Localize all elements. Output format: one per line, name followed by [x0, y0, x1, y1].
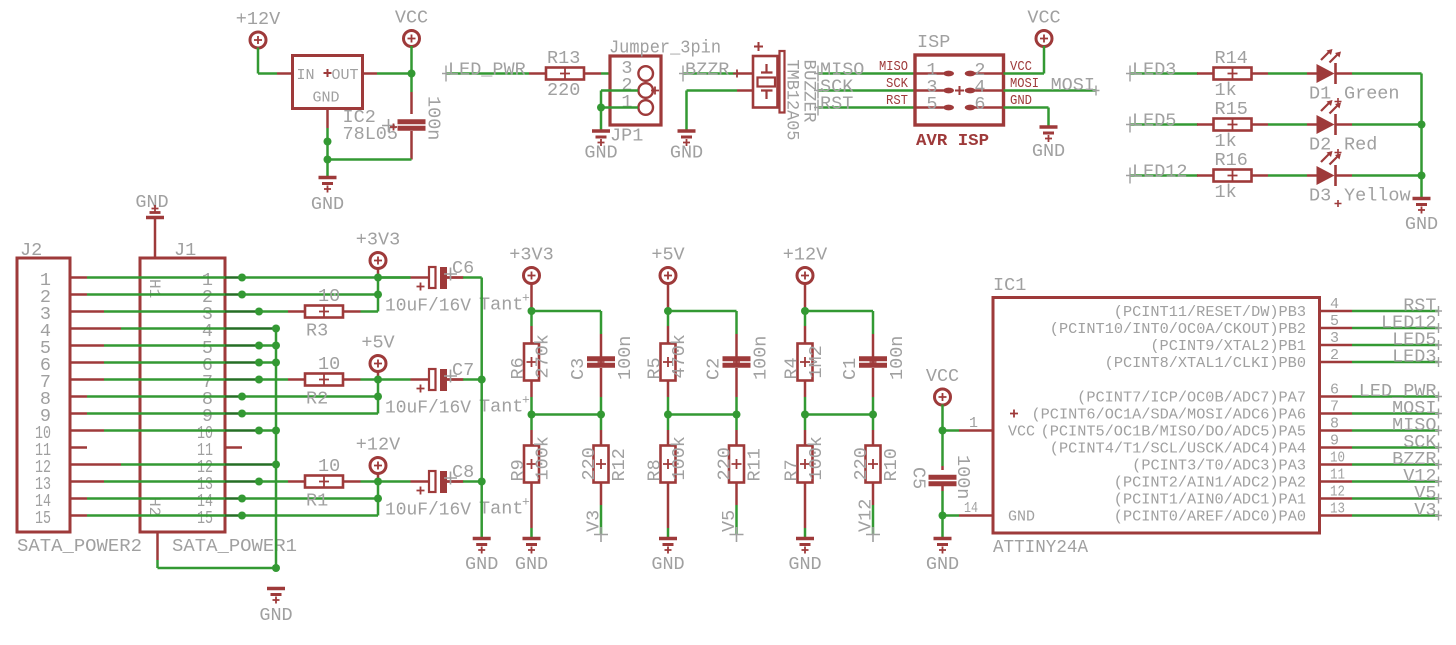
LED D3 Yellow — [1307, 151, 1352, 186]
resistor R15 1k — [1214, 119, 1252, 131]
wire J2-3 to J1-3 — [104, 310, 225, 313]
junction div5v top — [664, 307, 672, 315]
net label SCK — [814, 83, 915, 99]
wire R2 left stub — [288, 378, 305, 381]
junction div12v mid left — [801, 411, 809, 419]
wire to R9 — [530, 415, 533, 431]
capacitor C6 10uF/16V Tant — [411, 267, 464, 291]
wire 12V stem — [377, 473, 380, 482]
wire C1 bottom — [872, 368, 875, 397]
wire cap gnd vertical — [480, 278, 483, 538]
junction div5v mid left — [664, 411, 672, 419]
origin cross C1 — [870, 359, 877, 366]
wire J2 pin 13 stub — [70, 480, 104, 483]
wire R9 to gnd — [530, 483, 533, 529]
wire over J1 pin 6 — [225, 361, 259, 364]
svg-text:(PCINT11/RESET/DW)PB3: (PCINT11/RESET/DW)PB3 — [1114, 304, 1306, 321]
junction 5V b — [374, 393, 382, 401]
svg-text:15: 15 — [35, 508, 51, 529]
wire pin 8 stub — [1320, 429, 1353, 432]
wire 5V stem — [377, 371, 380, 380]
svg-text:LED5: LED5 — [1132, 111, 1176, 132]
svg-text:GND: GND — [670, 143, 703, 164]
origin cross D1 — [1335, 98, 1342, 105]
svg-text:+12V: +12V — [783, 245, 827, 266]
svg-text:GND: GND — [1405, 214, 1438, 235]
junction bottom gnd — [272, 564, 280, 572]
svg-text:11: 11 — [1330, 467, 1345, 484]
svg-text:10: 10 — [1330, 450, 1345, 467]
pin pad ISP-3 — [915, 88, 954, 94]
wire over J1 pin 8 — [225, 395, 242, 398]
wire 3V3 vertical — [377, 278, 380, 312]
wire to JP1 pin3 — [601, 72, 638, 75]
wire +12V stem — [804, 283, 807, 311]
wire +3V3 stem — [530, 283, 533, 311]
svg-text:270k: 270k — [533, 334, 554, 378]
junction gnd p10 — [272, 427, 280, 435]
junction J1-14 — [238, 495, 246, 503]
svg-text:VCC: VCC — [926, 366, 959, 387]
wire gnd row4 — [275, 327, 278, 330]
net label V5 — [730, 527, 744, 542]
wire pin 2 stub — [1320, 361, 1353, 364]
svg-text:+3V3: +3V3 — [509, 245, 553, 266]
wire 3V3 row1 — [242, 276, 411, 279]
wire J2-5 to J1-5 — [104, 344, 225, 347]
wire R1 right stub — [343, 480, 361, 483]
power VCC at IC1 — [926, 366, 959, 405]
net label V5 — [1352, 494, 1442, 504]
svg-text:R13: R13 — [547, 48, 580, 69]
wire J2-2 to J1-2 — [87, 293, 225, 296]
svg-text:100k: 100k — [533, 436, 554, 480]
net label LED3 — [1352, 357, 1442, 367]
wire J2-7 to J1-7 — [104, 378, 225, 381]
wire OUT to VCC node — [377, 72, 412, 75]
wire C8 right lead — [447, 480, 463, 483]
net label MOSI — [1055, 86, 1100, 96]
svg-text:10uF/16V: 10uF/16V — [385, 398, 471, 419]
wire down to C4 — [410, 74, 413, 93]
junction J1-15 — [238, 512, 246, 520]
wire to C8 — [378, 480, 411, 483]
svg-text:MOSI: MOSI — [1051, 75, 1095, 96]
pin cross buzzer 1 — [733, 70, 741, 78]
net label V3 — [594, 527, 608, 542]
resistor R13 — [546, 68, 584, 80]
wire R5 bottom — [667, 381, 670, 398]
wire J2 pin 2 stub — [70, 293, 87, 296]
wire J2 pin 7 stub — [70, 378, 104, 381]
wire +5V stem — [667, 283, 670, 311]
junction gnd p6 — [272, 359, 280, 367]
svg-text:100k: 100k — [806, 436, 827, 480]
wire J2-1 to J1-1 — [87, 276, 225, 279]
wire pin 13 stub — [1320, 514, 1353, 517]
svg-text:V3: V3 — [584, 510, 605, 532]
resistor R14 1k — [1214, 68, 1252, 80]
resistor R7 100k — [798, 446, 813, 483]
svg-text:R2: R2 — [306, 389, 328, 410]
svg-text:100n: 100n — [423, 96, 444, 140]
wire over J1 pin 14 — [225, 497, 242, 500]
wire div12v top — [805, 310, 873, 313]
wire R10 to V12 — [872, 483, 875, 506]
svg-text:Yellow: Yellow — [1344, 186, 1411, 207]
wire pin 5 stub — [1320, 327, 1353, 330]
junction J1-7 — [255, 376, 263, 384]
wire J2 pin 5 stub — [70, 344, 104, 347]
wire D3 to gnd rail — [1352, 174, 1422, 177]
svg-text:IC1: IC1 — [993, 275, 1026, 296]
junction 3V3 b — [374, 291, 382, 299]
wire J1 bottom to gnd — [158, 567, 277, 570]
junction gnd p5 — [272, 342, 280, 350]
svg-text:V12: V12 — [856, 499, 877, 532]
svg-text:7: 7 — [1330, 399, 1339, 416]
net label LED_PWR — [1352, 392, 1442, 402]
wire ISP pin4 MOSI — [1004, 89, 1056, 92]
svg-text:Red: Red — [1344, 135, 1377, 156]
svg-text:6: 6 — [974, 94, 985, 115]
svg-text:1k: 1k — [1215, 80, 1237, 101]
junction div3v3 mid right — [597, 411, 605, 419]
junction cap gnd 1 — [478, 376, 486, 384]
wire to R12 — [600, 415, 603, 431]
svg-text:5: 5 — [1330, 313, 1339, 330]
net label RST — [1352, 306, 1442, 316]
svg-text:GND: GND — [515, 554, 548, 575]
wire C6 right lead — [447, 276, 463, 279]
wire div12v mid — [805, 413, 873, 416]
svg-text:(PCINT9/XTAL2)PB1: (PCINT9/XTAL2)PB1 — [1150, 338, 1306, 355]
junction div3v3 top — [528, 307, 536, 315]
ground under buzzer — [678, 131, 696, 146]
power +5V at C7 — [361, 333, 394, 372]
svg-text:10: 10 — [318, 456, 340, 477]
capacitor C8 10uF/16V Tant — [411, 471, 464, 495]
svg-text:GND: GND — [1032, 141, 1065, 162]
wire J2 pin 12 stub — [70, 463, 121, 466]
svg-text:10: 10 — [318, 286, 340, 307]
wire R3 right stub — [343, 310, 361, 313]
resistor R8 100k — [661, 446, 676, 483]
junction J1-3 — [255, 308, 263, 316]
svg-text:+: + — [522, 393, 530, 408]
net label V12 — [1352, 477, 1442, 487]
power +3V3 divider — [509, 245, 553, 284]
wire gnd vertical at J1 — [275, 329, 278, 569]
wire 12V row14 — [242, 497, 378, 500]
wire div5v top — [668, 310, 737, 313]
capacitor C2 100n — [723, 356, 751, 368]
resistor R12 220 — [594, 446, 609, 483]
svg-text:1k: 1k — [1215, 182, 1237, 203]
svg-text:4: 4 — [1330, 296, 1339, 313]
svg-text:D3: D3 — [1309, 186, 1331, 207]
wire C5 bottom — [941, 486, 944, 491]
wire R1 left stub — [288, 480, 305, 483]
svg-text:GND: GND — [313, 90, 340, 107]
svg-text:12: 12 — [1330, 484, 1345, 501]
svg-text:1M2: 1M2 — [806, 345, 827, 378]
wire 5V row8 — [242, 395, 378, 398]
svg-text:VCC: VCC — [395, 8, 428, 29]
resistor R2 10 — [305, 374, 343, 386]
wire JP1 gnd vertical — [600, 91, 603, 130]
wire pin 12 stub — [1320, 497, 1353, 500]
junction IC1 gnd — [939, 512, 947, 520]
svg-text:+5V: +5V — [361, 333, 394, 354]
svg-text:1k: 1k — [1215, 131, 1237, 152]
svg-text:+5V: +5V — [651, 245, 684, 266]
wire C4 to GND rail — [410, 131, 413, 160]
ground below J1 — [267, 589, 285, 604]
wire div3v3 top — [532, 310, 602, 313]
wire R16 right stub — [1252, 174, 1269, 177]
LED D1 Green — [1307, 49, 1352, 84]
LED D2 Red — [1307, 100, 1352, 135]
wire to gnd — [941, 516, 944, 538]
net label SCK — [1352, 443, 1442, 453]
svg-text:R8: R8 — [645, 459, 666, 481]
svg-text:GND: GND — [926, 554, 959, 575]
wire div5v mid — [668, 413, 737, 416]
net label MOSI — [1352, 409, 1442, 419]
svg-text:R15: R15 — [1215, 99, 1248, 120]
svg-text:(PCINT5/OC1B/MISO/DO/ADC5)PA5: (PCINT5/OC1B/MISO/DO/ADC5)PA5 — [1041, 424, 1306, 441]
wire J2-4 to J1-4 — [121, 327, 225, 330]
junction J1-9 — [238, 410, 246, 418]
net label LED5 — [1352, 340, 1442, 350]
junction 5V a — [374, 376, 382, 384]
wire VCC down — [410, 46, 413, 74]
wire J2 pin 11 stub — [70, 446, 87, 449]
net label BZZR — [1352, 460, 1442, 470]
svg-text:100n: 100n — [751, 336, 772, 380]
junction gnd p12 — [272, 461, 280, 469]
svg-text:(PCINT3/T0/ADC3)PA3: (PCINT3/T0/ADC3)PA3 — [1132, 458, 1306, 475]
wire J2 pin 4 stub — [70, 327, 121, 330]
resistor R1 10 — [305, 476, 343, 488]
svg-text:GND: GND — [1008, 509, 1035, 526]
svg-text:R5: R5 — [645, 357, 666, 379]
svg-text:9: 9 — [1330, 433, 1339, 450]
svg-text:220: 220 — [547, 80, 580, 101]
svg-text:220: 220 — [579, 447, 600, 480]
svg-text:Green: Green — [1344, 84, 1400, 105]
svg-text:C3: C3 — [568, 358, 589, 380]
svg-text:RST: RST — [820, 94, 853, 115]
wire R15 right stub — [1252, 123, 1269, 126]
svg-text:(PCINT0/AREF/ADC0)PA0: (PCINT0/AREF/ADC0)PA0 — [1114, 509, 1306, 526]
origin cross C2 — [733, 359, 740, 366]
svg-text:100n: 100n — [887, 336, 908, 380]
wire to pin 14 — [943, 514, 960, 517]
wire gnd to J1 — [154, 219, 157, 258]
svg-text:3: 3 — [1330, 330, 1339, 347]
wire pin 4 stub — [1320, 310, 1353, 313]
plus mark C4 — [390, 124, 397, 131]
wire J2 pin 1 stub — [70, 276, 87, 279]
buzzer SG1 TMB12A05 — [753, 42, 785, 113]
wire R14 left stub — [1197, 72, 1214, 75]
wire over J1 pin 3 — [225, 310, 259, 313]
net label MISO — [1352, 426, 1442, 436]
junction GND 2 — [324, 156, 332, 164]
net label LED5 — [1126, 117, 1198, 133]
svg-text:(PCINT10/INT0/OC0A/CKOUT)PB2: (PCINT10/INT0/OC0A/CKOUT)PB2 — [1050, 321, 1306, 338]
wire gnd row5 — [259, 344, 276, 347]
svg-text:R16: R16 — [1215, 150, 1248, 171]
power +12V — [236, 9, 280, 48]
svg-text:10uF/16V: 10uF/16V — [385, 296, 471, 317]
connector J1 SATA_POWER1 — [140, 258, 225, 532]
svg-text:C8: C8 — [452, 462, 474, 483]
svg-text:BUZZER: BUZZER — [799, 60, 819, 123]
svg-text:OUT: OUT — [332, 67, 359, 84]
capacitor C7 10uF/16V Tant — [411, 369, 464, 393]
svg-text:SATA_POWER1: SATA_POWER1 — [172, 536, 297, 557]
svg-text:78L05: 78L05 — [343, 124, 399, 145]
wire over J1 pin 13 — [225, 480, 259, 483]
svg-text:V3: V3 — [1414, 500, 1436, 521]
svg-text:C5: C5 — [908, 467, 929, 489]
svg-text:J2: J2 — [20, 240, 42, 261]
wire J2-14 to J1-14 — [87, 497, 225, 500]
origin cross C8 — [444, 472, 457, 485]
wire vcc to C5 — [941, 431, 944, 467]
wire to C7 — [378, 378, 411, 381]
svg-text:C2: C2 — [704, 358, 725, 380]
pin pad ISP-4 — [965, 88, 1004, 94]
wire R2 right stub — [343, 378, 361, 381]
wire J2 pin 14 stub — [70, 497, 87, 500]
wire R3 left stub — [288, 310, 305, 313]
svg-text:H2: H2 — [145, 497, 163, 516]
svg-text:IN: IN — [297, 67, 315, 84]
svg-text:15: 15 — [197, 508, 213, 529]
svg-text:2: 2 — [1330, 347, 1339, 364]
resistor R10 220 — [866, 446, 881, 483]
svg-text:AVR ISP: AVR ISP — [916, 131, 989, 150]
svg-text:6: 6 — [1330, 382, 1339, 399]
svg-text:SCK: SCK — [886, 76, 909, 92]
junction 12V b — [374, 495, 382, 503]
svg-text:R14: R14 — [1215, 48, 1248, 69]
wire buzzer pin1 stub — [737, 72, 753, 75]
svg-text:220: 220 — [715, 447, 736, 480]
wire buzzer to gnd — [687, 89, 738, 92]
svg-text:(PCINT2/AIN1/ADC2)PA2: (PCINT2/AIN1/ADC2)PA2 — [1114, 475, 1306, 492]
junction div12v mid right — [869, 411, 877, 419]
svg-text:VCC: VCC — [1008, 424, 1035, 441]
wire over J1 pin 9 — [225, 412, 242, 415]
svg-text:R10: R10 — [881, 448, 902, 481]
svg-text:GND: GND — [651, 554, 684, 575]
wire R13 left stub — [529, 72, 546, 75]
connector ISP AVR ISP — [915, 55, 1004, 125]
origin cross C6 — [444, 268, 457, 281]
svg-text:+3V3: +3V3 — [356, 230, 400, 251]
part origin cross C4 — [382, 119, 395, 132]
wire C7 right lead — [447, 378, 463, 381]
power VCC — [395, 8, 428, 47]
wire J2-13 to J1-13 — [104, 480, 225, 483]
wire J2 pin 15 stub — [70, 514, 87, 517]
junction div3v3 mid left — [528, 411, 536, 419]
wire JP1 pin2 out — [601, 89, 638, 92]
ground div12v — [796, 539, 814, 554]
wire R16 left stub — [1197, 174, 1214, 177]
power +12V divider — [783, 245, 827, 284]
wire D1 to gnd rail — [1352, 72, 1422, 75]
ground symbol above J1 — [146, 205, 164, 218]
wire R15 left stub — [1197, 123, 1214, 126]
origin cross D2 — [1335, 149, 1342, 156]
wire div3v3 mid — [532, 413, 602, 416]
wire J2 pin 8 stub — [70, 395, 87, 398]
net label MISO — [814, 66, 915, 82]
wire R14 right stub — [1252, 72, 1269, 75]
wire J2-15 to J1-15 — [87, 514, 225, 517]
svg-text:Tant: Tant — [479, 397, 523, 418]
net label RST — [814, 100, 915, 116]
origin cross D3 — [1335, 200, 1342, 207]
svg-text:(PCINT8/XTAL1/CLKI)PB0: (PCINT8/XTAL1/CLKI)PB0 — [1105, 355, 1306, 372]
ground under IC2 — [319, 178, 337, 193]
svg-text:R6: R6 — [508, 357, 529, 379]
junction J1-10 — [255, 427, 263, 435]
wire pin 6 stub — [1320, 395, 1353, 398]
wire GND rail — [328, 158, 412, 161]
svg-text:R11: R11 — [745, 448, 766, 481]
connector J2 SATA_POWER2 — [17, 258, 70, 532]
svg-text:GND: GND — [465, 554, 498, 575]
ground at IC1 — [934, 539, 952, 554]
wire J2-9 to J1-9 — [87, 412, 225, 415]
ground LEDs — [1413, 199, 1431, 214]
wire 12V vertical — [377, 482, 380, 516]
junction div5v mid right — [733, 411, 741, 419]
wire J1 pin 11 stub — [225, 446, 242, 449]
wire +12V to IN — [257, 48, 260, 74]
junction J1-8 — [238, 393, 246, 401]
wire J2-8 to J1-8 — [87, 395, 225, 398]
net label LED_PWR — [442, 66, 529, 82]
wire LED gnd vertical — [1420, 74, 1423, 198]
svg-text:(PCINT1/AIN0/ADC1)PA1: (PCINT1/AIN0/ADC1)PA1 — [1114, 492, 1306, 509]
wire to R8 — [667, 415, 670, 431]
svg-text:ISP: ISP — [917, 32, 950, 53]
svg-text:VCC: VCC — [1027, 8, 1060, 29]
svg-text:RST: RST — [886, 93, 908, 109]
wire R7 to gnd — [804, 483, 807, 529]
svg-text:(PCINT7/ICP/OC0B/ADC7)PA7: (PCINT7/ICP/OC0B/ADC7)PA7 — [1077, 390, 1306, 407]
pin circle JP1-1 — [638, 100, 653, 115]
wire pin 11 stub — [1320, 480, 1353, 483]
svg-text:GND: GND — [788, 554, 821, 575]
ground div5v — [659, 539, 677, 554]
resistor R6 270k — [524, 344, 539, 381]
wire 5V vertical — [377, 380, 380, 414]
net label LED3 — [1126, 66, 1198, 82]
ic IC1 ATTINY24A — [993, 298, 1320, 534]
wire 12V row15 — [242, 514, 378, 517]
wire over J1 pin 7 — [225, 378, 259, 381]
ground div3v3 — [523, 539, 541, 554]
